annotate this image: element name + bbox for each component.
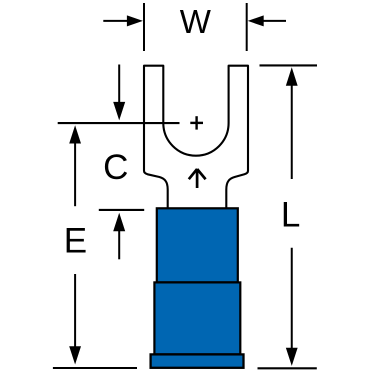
fork terminal metal body	[144, 66, 248, 209]
insulation flange	[151, 354, 244, 367]
svg-text:C: C	[103, 148, 128, 187]
L bottom extension line	[258, 367, 317, 369]
stud centerline (C top reference line)	[58, 122, 180, 124]
E bottom extension line	[53, 367, 137, 369]
plus mark at stud center	[190, 122, 203, 124]
W dimension right arrow	[263, 20, 286, 22]
C bottom reference line	[99, 209, 144, 211]
svg-text:L: L	[281, 196, 300, 235]
wire insertion arrow	[196, 169, 199, 188]
W dimension left arrow	[103, 20, 128, 22]
L dimension line lower segment with down arrow	[291, 248, 293, 349]
C dimension up arrow	[113, 213, 125, 232]
insulation barrel lower section	[154, 282, 240, 354]
L top extension line	[260, 64, 318, 66]
W dimension left extension line	[143, 3, 145, 51]
L dimension line upper segment with up arrow	[286, 67, 298, 86]
E dimension line lower segment with down arrow	[74, 274, 76, 347]
W dimension right extension line	[246, 3, 248, 51]
svg-text:W: W	[180, 3, 212, 40]
insulation barrel upper section	[157, 208, 238, 282]
E dimension line upper segment with up arrow	[69, 125, 81, 143]
C dimension down arrow	[118, 65, 120, 103]
svg-text:E: E	[64, 221, 87, 260]
